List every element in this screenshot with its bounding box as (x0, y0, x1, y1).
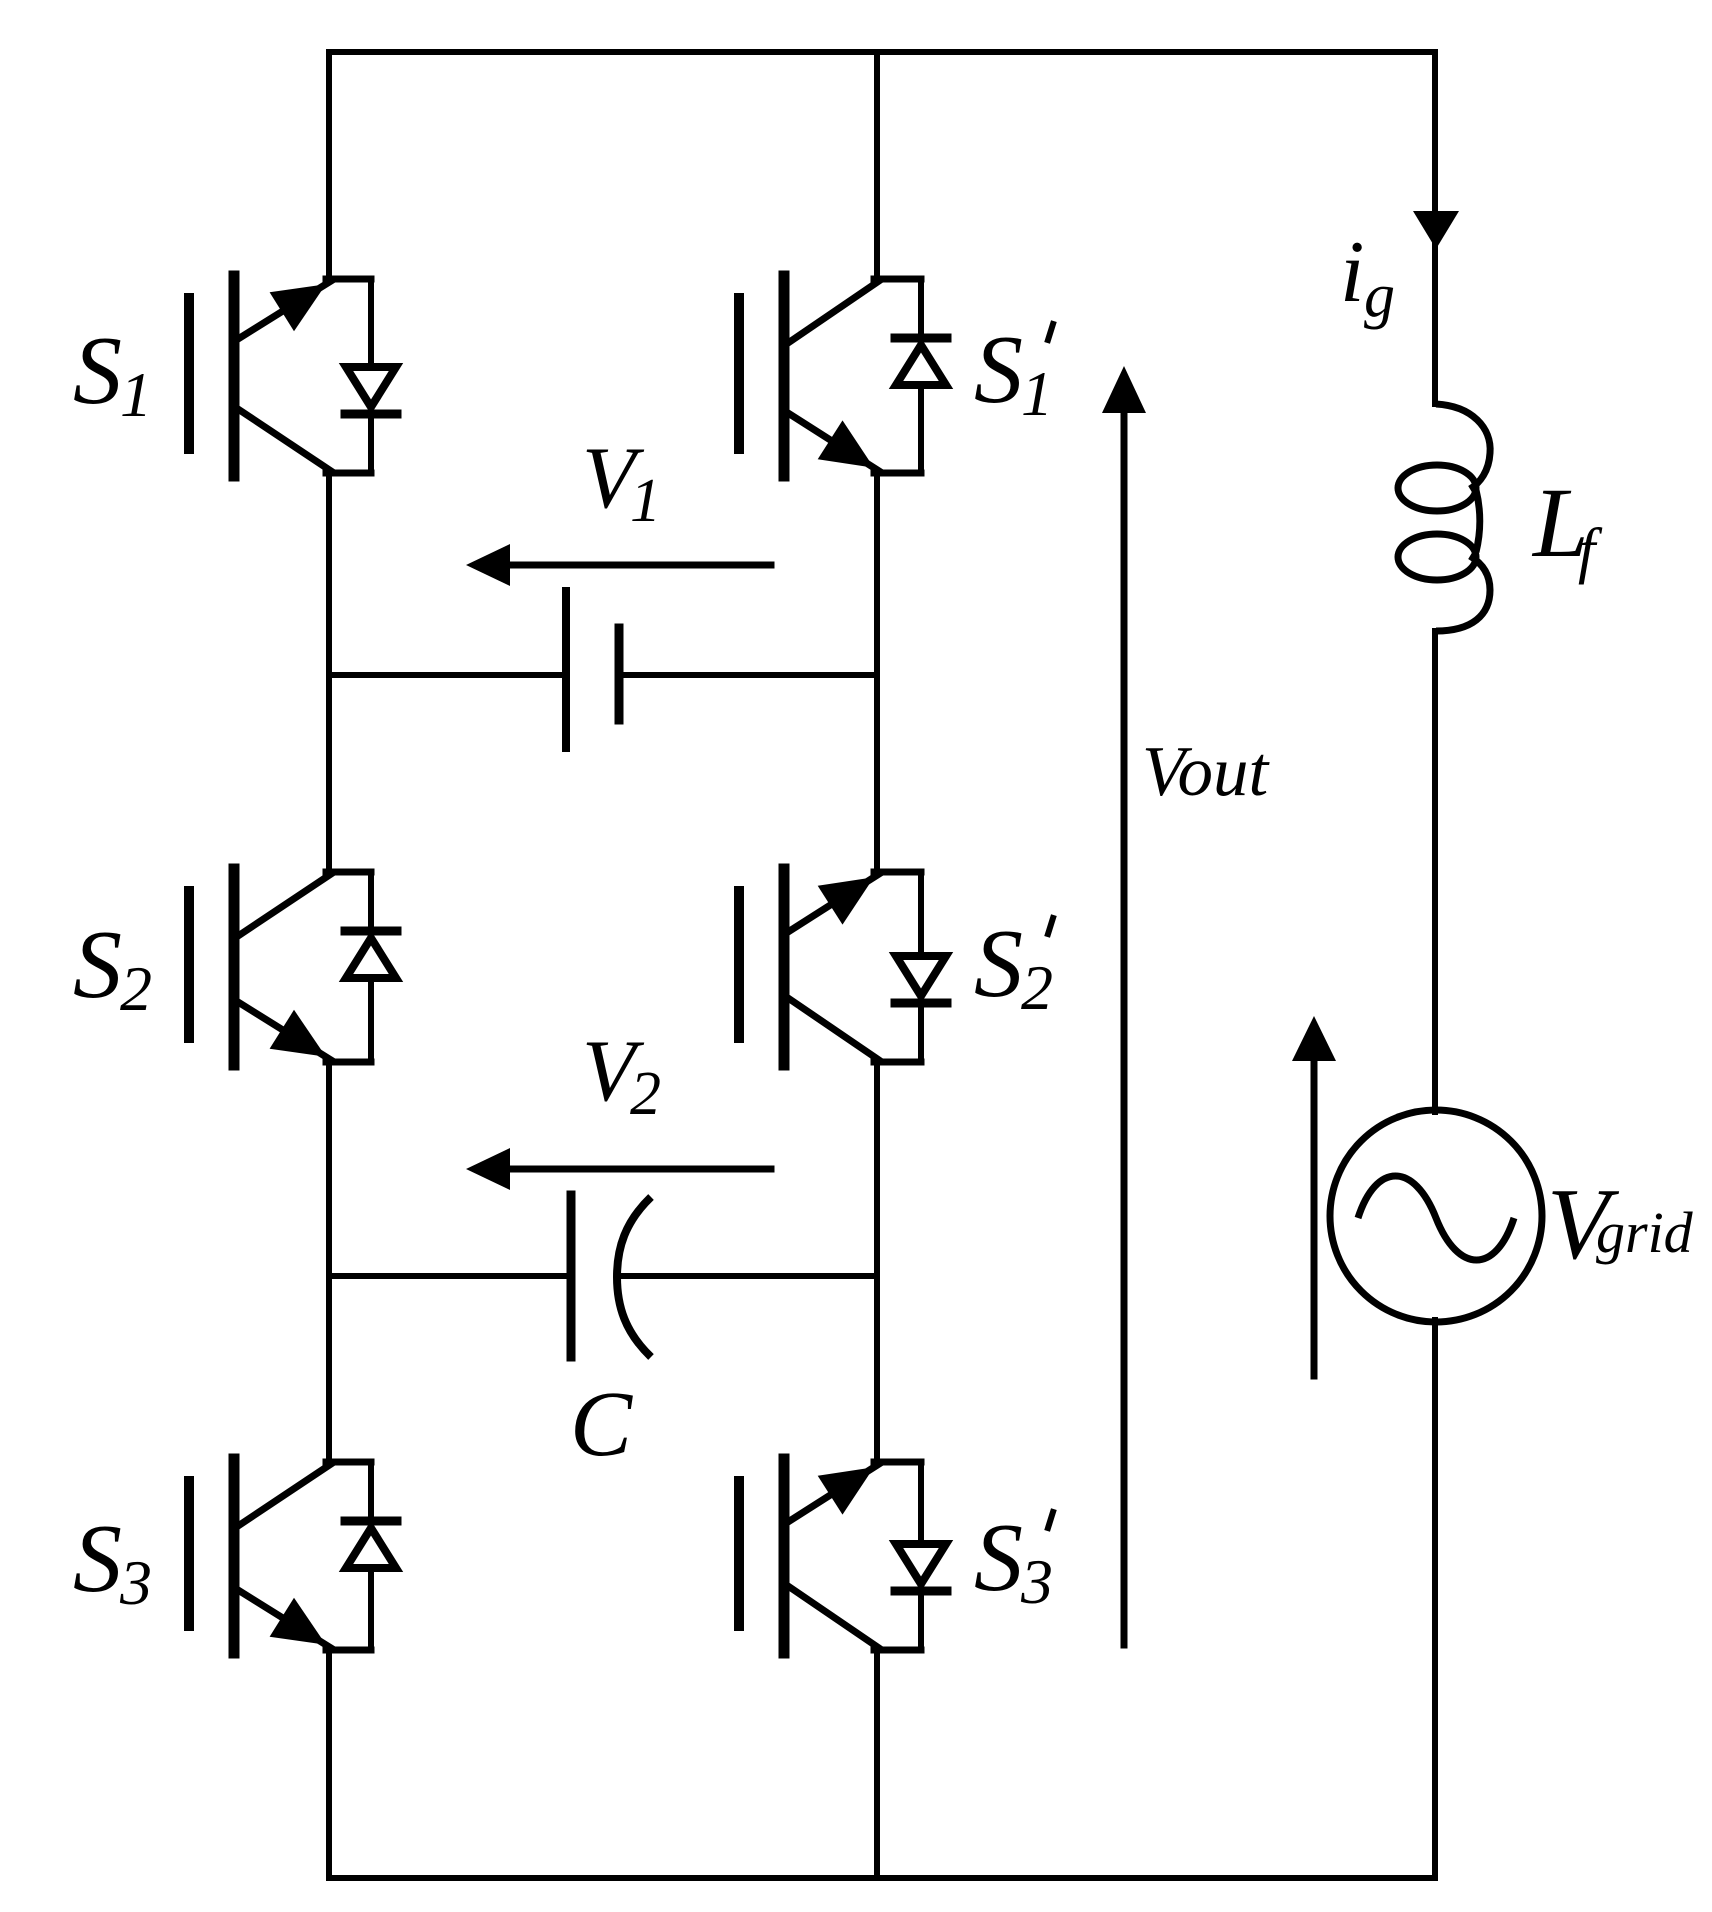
arrow V1 (reference direction) (508, 562, 771, 569)
wire: left rail segment 1 (326, 52, 332, 279)
capacitor C right wire (620, 1273, 877, 1279)
S1 arrow (270, 284, 326, 331)
svg-text:1: 1 (1021, 358, 1053, 429)
S2p emitter link (874, 1059, 921, 1066)
wire: left rail segment 4 (326, 1650, 332, 1878)
wire: middle rail segment 1 (874, 52, 880, 279)
S1p collector link (874, 276, 921, 283)
S3 main bar (229, 1459, 240, 1653)
arrow ig (grid current) (1413, 211, 1459, 249)
capacitor V1 right wire (619, 672, 877, 678)
wire: middle rail segment 2 (874, 473, 880, 872)
svg-text:i: i (1340, 224, 1364, 321)
wire: right rail segment 2 (inductor to Vgrid) (1432, 631, 1438, 1112)
inductor Lf (1398, 404, 1490, 631)
svg-text:2: 2 (1021, 952, 1053, 1023)
S2p emitter diagonal (788, 874, 879, 932)
S1p emitter diagonal (788, 413, 879, 471)
S2 emitter link (326, 1059, 371, 1066)
transistor S3: IGBT with antiparallel diode (189, 1459, 397, 1653)
svg-text:S: S (73, 1505, 122, 1613)
S1 gate bar (184, 298, 194, 449)
capacitor V1 left wire (329, 672, 566, 678)
svg-text:1: 1 (630, 467, 661, 535)
S2 collector link (326, 869, 371, 876)
S1 emitter link (326, 470, 371, 477)
svg-text:3: 3 (119, 1547, 152, 1618)
diode of S3 (368, 1462, 374, 1650)
transistor S1: IGBT with antiparallel diode (189, 276, 397, 476)
S3 arrow (270, 1598, 326, 1645)
wire: left rail segment 2 (326, 473, 332, 872)
S1 collector link (326, 276, 371, 283)
svg-text:grid: grid (1596, 1200, 1694, 1265)
capacitor C curved plate (617, 1197, 651, 1357)
wire: middle rail segment 3 (874, 1062, 880, 1462)
S2 arrow (270, 1010, 326, 1057)
transistor S2p: IGBT with antiparallel diode (739, 869, 947, 1065)
wire: middle rail segment 4 (874, 1650, 880, 1878)
diode of S1p (918, 279, 924, 473)
transistor S1p: IGBT with antiparallel diode (739, 276, 947, 476)
S2 emitter diagonal (238, 1002, 331, 1060)
svg-text:S: S (974, 910, 1023, 1018)
svg-text:S: S (974, 1504, 1023, 1612)
S3p arrow (818, 1467, 874, 1514)
S1 main bar (229, 276, 240, 476)
S3p emitter diagonal (788, 1464, 879, 1522)
diode of S1 (368, 279, 374, 473)
wire: top bus (329, 49, 1435, 55)
S2 main bar (229, 869, 240, 1065)
svg-text:1: 1 (120, 359, 152, 430)
diode of S3p (918, 1462, 924, 1650)
svg-text:2: 2 (630, 1060, 661, 1128)
S2p gate bar (734, 891, 744, 1038)
S3 collector diagonal (238, 1464, 331, 1526)
capacitor V1 left plate (562, 591, 570, 748)
wire: bottom bus (329, 1875, 1435, 1881)
capacitor C left wire (329, 1273, 571, 1279)
S2p collector link (874, 869, 921, 876)
S2p main bar (779, 869, 790, 1065)
S3 emitter link (326, 1647, 371, 1654)
transistor S2: IGBT with antiparallel diode (189, 869, 397, 1065)
S2 collector diagonal (238, 874, 331, 936)
capacitor C left plate (567, 1195, 576, 1357)
S3p emitter link (874, 1647, 921, 1654)
svg-text:S: S (73, 911, 122, 1019)
S3 gate bar (184, 1481, 194, 1626)
S3p main bar (779, 1459, 790, 1653)
S1p main bar (779, 276, 790, 476)
capacitor V1 right plate (615, 628, 624, 720)
S2p arrow (818, 877, 874, 924)
S3p collector diagonal (788, 1586, 879, 1648)
svg-text:g: g (1364, 262, 1395, 330)
svg-text:3: 3 (1020, 1546, 1053, 1617)
svg-text:Vout: Vout (1142, 733, 1271, 811)
arrow Vgrid (reference direction) (1311, 1061, 1318, 1376)
arrow V2 (reference direction) (508, 1166, 771, 1173)
S1p emitter link (874, 470, 921, 477)
wire: right rail segment 1 (top bus to inductor) (1432, 52, 1438, 404)
S1p arrow (818, 420, 874, 467)
svg-text:S: S (974, 316, 1023, 424)
S1p gate bar (734, 298, 744, 449)
arrow Vout (1121, 413, 1128, 1645)
svg-text:C: C (570, 1373, 633, 1476)
svg-text:S: S (73, 317, 122, 425)
diode of S2p (918, 872, 924, 1062)
source Vgrid (AC) (1330, 1110, 1542, 1322)
S3p gate bar (734, 1481, 744, 1626)
svg-text:2: 2 (120, 953, 152, 1024)
S1 collector diagonal (238, 409, 331, 471)
S3 collector link (326, 1459, 371, 1466)
S1 emitter diagonal (238, 281, 331, 339)
diode of S2 (368, 872, 374, 1062)
S3 emitter diagonal (238, 1590, 331, 1648)
S2p collector diagonal (788, 998, 879, 1060)
S1p collector diagonal (788, 281, 879, 343)
S2 gate bar (184, 891, 194, 1038)
transistor S3p: IGBT with antiparallel diode (739, 1459, 947, 1653)
S3p collector link (874, 1459, 921, 1466)
wire: right rail segment 3 (Vgrid to bottom bus) (1432, 1320, 1438, 1878)
wire: left rail segment 3 (326, 1062, 332, 1462)
